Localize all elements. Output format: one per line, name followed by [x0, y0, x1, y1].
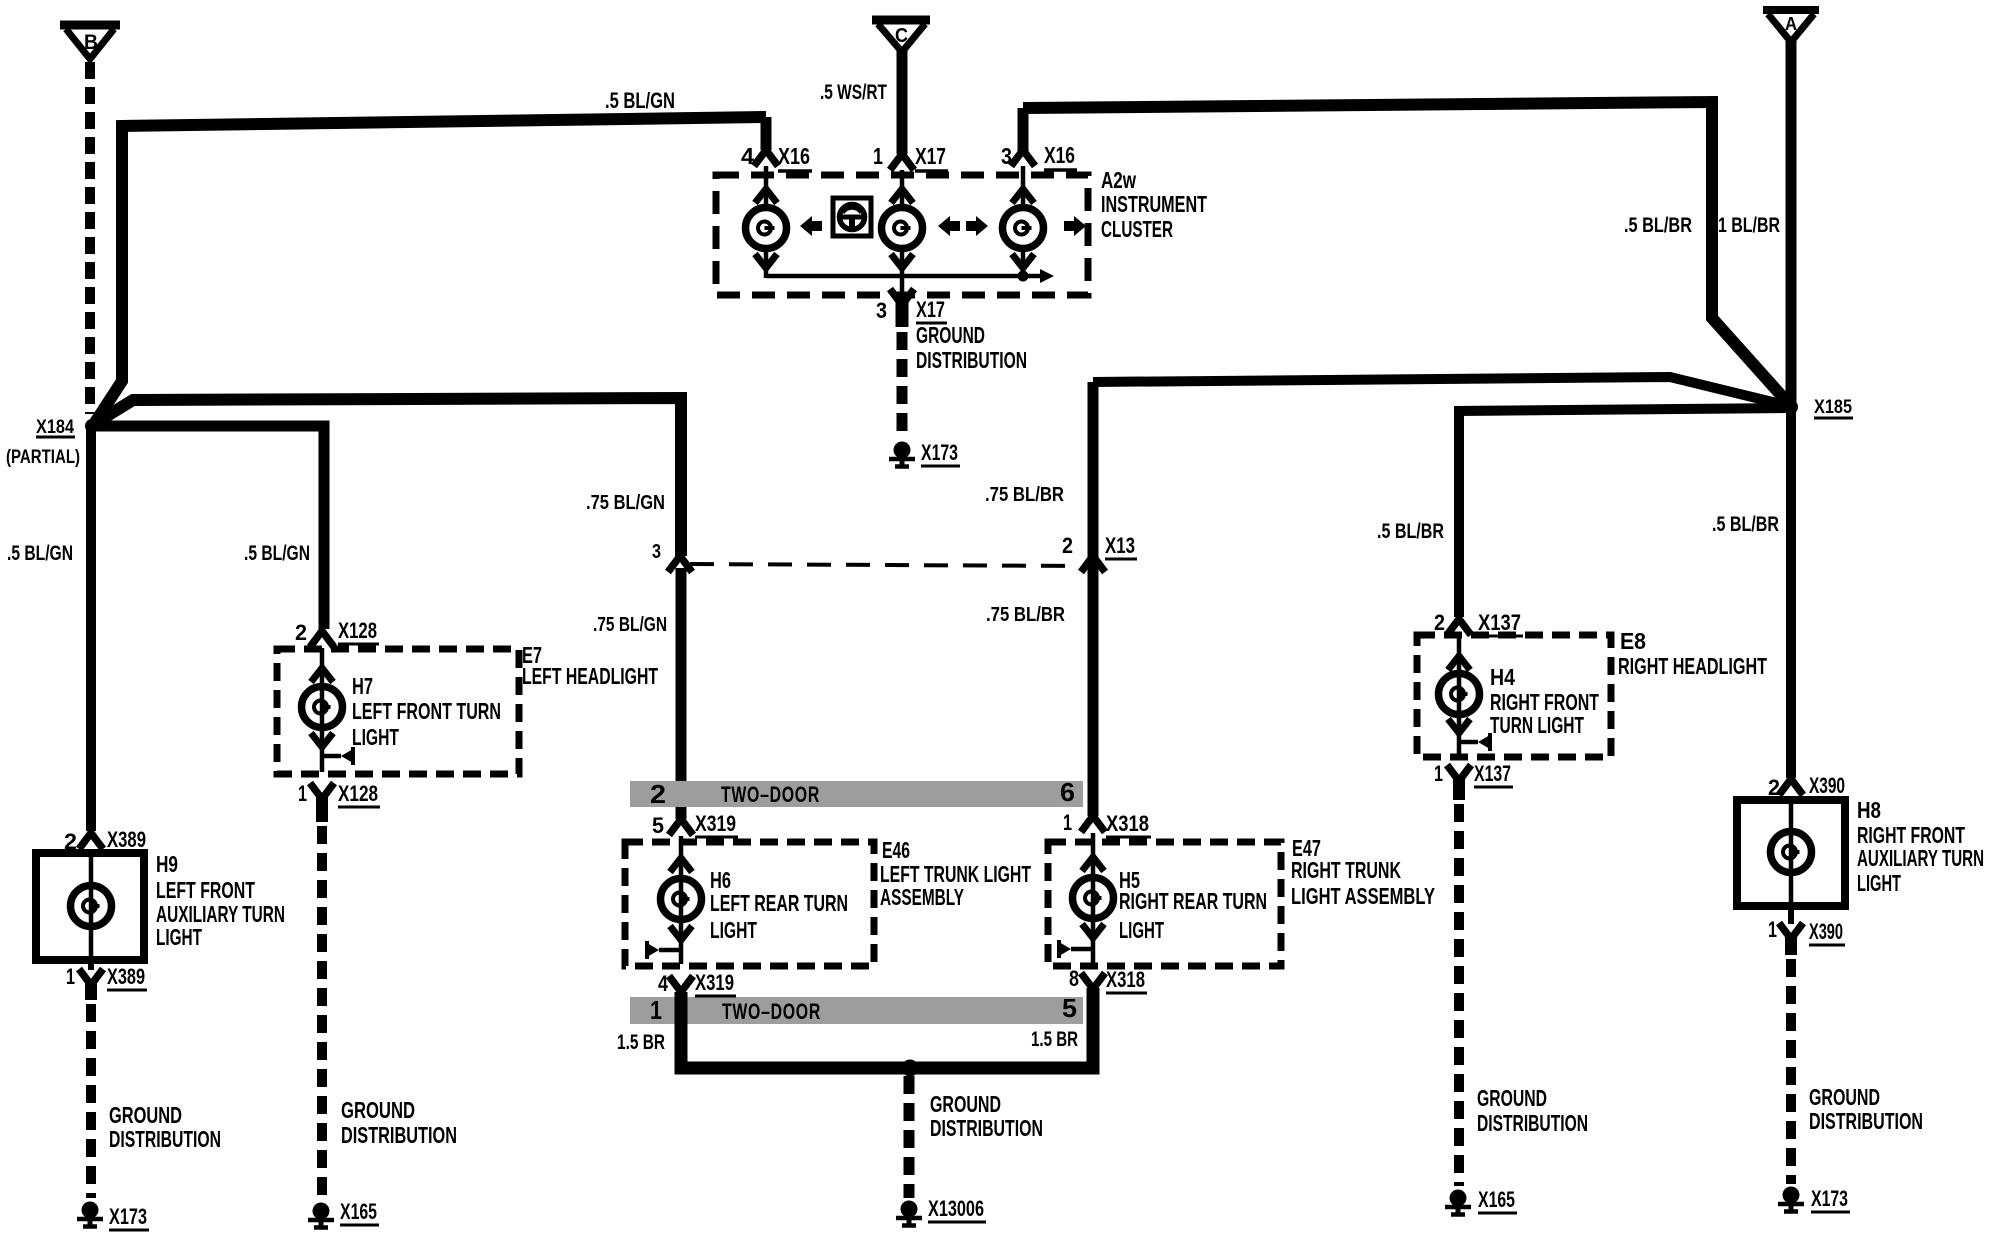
wire rear ground bus 1.5 BR: [681, 988, 1093, 1068]
svg-text:1 BL/BR: 1 BL/BR: [1718, 214, 1780, 237]
svg-text:LIGHT ASSEMBLY: LIGHT ASSEMBLY: [1291, 883, 1435, 909]
wire X184 down to X389 (.5 BL/GN): [86, 425, 96, 831]
svg-text:.75 BL/GN: .75 BL/GN: [593, 614, 667, 636]
wire B dashed vertical: [85, 62, 95, 414]
svg-text:H4: H4: [1490, 664, 1515, 690]
pin 1 X128: [298, 781, 380, 822]
ground X173 right: [1778, 1186, 1850, 1212]
svg-text:.5 BL/GN: .5 BL/GN: [605, 88, 675, 113]
svg-text:.5 BL/BR: .5 BL/BR: [1712, 513, 1779, 536]
svg-text:X319: X319: [695, 811, 736, 836]
indicator arrows center pair: [938, 216, 988, 236]
label GROUND DISTRIBUTION far left: [109, 1102, 221, 1152]
svg-text:A2w: A2w: [1101, 167, 1136, 193]
label H5 RIGHT REAR TURN LIGHT: [1119, 867, 1267, 943]
svg-text:X128: X128: [338, 781, 378, 806]
svg-text:X17: X17: [915, 143, 946, 169]
headlight E8 dashed box: [1417, 635, 1611, 757]
svg-text:C: C: [895, 25, 908, 47]
svg-text:LIGHT: LIGHT: [156, 924, 202, 950]
svg-text:1: 1: [873, 143, 883, 169]
svg-text:H8: H8: [1857, 797, 1881, 823]
label GROUND DISTRIBUTION mid left: [341, 1097, 457, 1148]
label E47 RIGHT TRUNK LIGHT ASSEMBLY: [1291, 835, 1435, 909]
wire dashed X137 to ground: [1454, 804, 1464, 1186]
bulb H4: [1439, 640, 1491, 755]
ground X165 right: [1445, 1187, 1517, 1215]
svg-text:DISTRIBUTION: DISTRIBUTION: [1477, 1110, 1588, 1136]
svg-text:TURN LIGHT: TURN LIGHT: [1490, 712, 1584, 738]
trunk light assembly E46 dashed box: [625, 842, 874, 966]
pin 1 X17: [873, 143, 948, 171]
bulb H9: [71, 849, 112, 960]
svg-text:E46: E46: [882, 837, 910, 863]
svg-text:8: 8: [1069, 966, 1079, 991]
svg-text:.5 WS/RT: .5 WS/RT: [820, 81, 887, 104]
bulb H7: [302, 652, 354, 772]
svg-text:1.5 BR: 1.5 BR: [1031, 1028, 1078, 1051]
pin 3 X17 bottom: [876, 289, 947, 327]
svg-text:3: 3: [876, 298, 887, 323]
svg-text:H9: H9: [156, 851, 178, 877]
svg-text:GROUND: GROUND: [916, 322, 985, 348]
svg-text:1: 1: [650, 995, 662, 1025]
svg-text:X185: X185: [1814, 397, 1852, 418]
svg-text:2: 2: [1062, 533, 1073, 558]
svg-text:1: 1: [1063, 810, 1072, 835]
pin 8 X318: [1069, 966, 1147, 993]
wire C vertical .5 WS/RT: [897, 50, 908, 154]
pin 4 X16: [741, 143, 812, 171]
svg-text:X128: X128: [338, 618, 377, 643]
pin 3 left of X13: [652, 541, 692, 572]
pin 5 X319: [652, 811, 738, 844]
svg-text:LIGHT: LIGHT: [1857, 870, 1901, 896]
indicator arrow left: [800, 216, 822, 236]
svg-text:TWO–DOOR: TWO–DOOR: [722, 999, 821, 1024]
svg-text:X184: X184: [36, 417, 74, 438]
lamp H8 box: [1737, 800, 1845, 906]
wire X184 to X128 branch: [92, 426, 324, 629]
bulb H6: [647, 844, 702, 964]
svg-text:X165: X165: [340, 1199, 377, 1224]
label H7 LEFT FRONT TURN LIGHT: [352, 673, 501, 750]
two-door band lower: [630, 993, 1083, 1025]
svg-text:.5 BL/BR: .5 BL/BR: [1377, 520, 1444, 543]
node X184: [6, 417, 99, 468]
wire dashed cluster to ground X173: [897, 332, 908, 438]
svg-text:X16: X16: [778, 143, 810, 169]
svg-text:X13006: X13006: [928, 1196, 984, 1221]
svg-text:RIGHT REAR TURN: RIGHT REAR TURN: [1119, 888, 1267, 914]
svg-text:DISTRIBUTION: DISTRIBUTION: [930, 1115, 1043, 1141]
svg-text:B: B: [84, 31, 98, 54]
pin 2 X389: [64, 827, 148, 854]
connector triangle A: [1763, 10, 1819, 42]
svg-text:X319: X319: [695, 970, 734, 995]
bulb H8: [1771, 796, 1812, 906]
svg-text:2: 2: [295, 620, 307, 645]
svg-text:X318: X318: [1106, 967, 1145, 992]
svg-text:5: 5: [652, 813, 664, 838]
label H4 RIGHT FRONT TURN LIGHT: [1490, 664, 1599, 738]
headlight E7 dashed box: [277, 649, 519, 774]
svg-text:(PARTIAL): (PARTIAL): [6, 447, 80, 468]
svg-text:X173: X173: [109, 1204, 147, 1229]
svg-text:3: 3: [652, 541, 661, 563]
label GROUND DISTRIBUTION center bottom: [930, 1091, 1043, 1141]
wire top-right .5 BL/BR run: [1023, 102, 1789, 404]
svg-text:X390: X390: [1809, 919, 1843, 944]
svg-text:LEFT FRONT: LEFT FRONT: [156, 877, 255, 903]
pin 1 X389: [66, 960, 147, 1000]
pin 2 X13: [1062, 533, 1137, 572]
svg-text:3: 3: [1001, 143, 1012, 169]
svg-text:A: A: [1785, 14, 1797, 34]
svg-text:X318: X318: [1106, 811, 1149, 836]
svg-text:1: 1: [66, 964, 75, 989]
svg-text:2: 2: [650, 779, 666, 809]
pin 1 X390: [1768, 906, 1845, 955]
svg-text:.75 BL/BR: .75 BL/BR: [986, 604, 1065, 626]
svg-text:X165: X165: [1478, 1187, 1515, 1212]
svg-text:INSTRUMENT: INSTRUMENT: [1101, 191, 1207, 217]
pin 2 X128: [295, 618, 379, 652]
svg-text:LIGHT: LIGHT: [710, 917, 757, 943]
label H8 RIGHT FRONT AUXILIARY TURN LIGHT: [1857, 797, 1984, 896]
label GROUND DISTRIBUTION center top: [916, 322, 1027, 373]
junction X13006 bus dot: [902, 1060, 919, 1077]
svg-text:E8: E8: [1620, 628, 1646, 654]
svg-text:4: 4: [741, 143, 754, 169]
svg-text:5: 5: [1062, 993, 1077, 1023]
label E8 RIGHT HEADLIGHT: [1618, 628, 1767, 679]
svg-text:GROUND: GROUND: [109, 1102, 182, 1128]
wire dashed X128 to ground: [317, 826, 327, 1198]
svg-text:1.5 BR: 1.5 BR: [617, 1031, 665, 1054]
svg-text:X389: X389: [107, 827, 146, 852]
svg-text:.75 BL/GN: .75 BL/GN: [586, 492, 665, 514]
wire top-left .5 BL/GN run: [94, 117, 766, 424]
svg-text:LIGHT: LIGHT: [1119, 917, 1164, 943]
svg-text:DISTRIBUTION: DISTRIBUTION: [916, 347, 1027, 373]
svg-text:4: 4: [658, 971, 669, 996]
indicator arrow right: [1064, 216, 1086, 236]
pin 2 X390: [1768, 773, 1847, 800]
svg-text:GROUND: GROUND: [1477, 1085, 1547, 1111]
trunk light assembly E47 dashed box: [1048, 842, 1281, 966]
svg-text:DISTRIBUTION: DISTRIBUTION: [341, 1122, 457, 1148]
instrument cluster A2w dashed box: [716, 175, 1088, 295]
svg-text:TWO–DOOR: TWO–DOOR: [721, 782, 820, 807]
svg-text:H7: H7: [352, 673, 373, 699]
svg-text:2: 2: [1434, 610, 1445, 635]
svg-text:LEFT REAR TURN: LEFT REAR TURN: [710, 890, 848, 916]
svg-text:6: 6: [1060, 777, 1075, 807]
pin 1 X318: [1063, 810, 1151, 844]
svg-text:.5 BL/BR: .5 BL/BR: [1624, 214, 1692, 237]
label A2w INSTRUMENT CLUSTER: [1101, 167, 1207, 242]
svg-text:LIGHT: LIGHT: [352, 724, 399, 750]
connector triangle C: [872, 20, 930, 52]
bulb cluster center lamp: [882, 170, 923, 294]
svg-text:X389: X389: [107, 964, 145, 989]
svg-text:.5 BL/GN: .5 BL/GN: [244, 542, 310, 565]
label E46 LEFT TRUNK LIGHT ASSEMBLY: [880, 837, 1031, 910]
bulb cluster right lamp: [1003, 166, 1044, 278]
label GROUND DISTRIBUTION mid right: [1477, 1085, 1588, 1136]
wire dashed to ground X13006: [904, 1076, 915, 1198]
pin 4 X319: [658, 970, 736, 996]
svg-text:GROUND: GROUND: [930, 1091, 1001, 1117]
wire left rear column to X319: [676, 568, 687, 819]
svg-text:ASSEMBLY: ASSEMBLY: [880, 884, 964, 910]
svg-text:.5 BL/GN: .5 BL/GN: [7, 542, 73, 565]
svg-text:RIGHT HEADLIGHT: RIGHT HEADLIGHT: [1618, 653, 1767, 679]
svg-text:1: 1: [1768, 917, 1777, 942]
node X185: [1784, 397, 1853, 418]
dashed link wire X13: [690, 564, 1080, 566]
cluster internal ground link wire: [766, 269, 1054, 283]
svg-text:X173: X173: [921, 440, 958, 465]
svg-text:DISTRIBUTION: DISTRIBUTION: [109, 1126, 221, 1152]
svg-text:GROUND: GROUND: [341, 1097, 415, 1123]
svg-text:LEFT FRONT TURN: LEFT FRONT TURN: [352, 698, 501, 724]
ground X13006: [896, 1196, 986, 1226]
svg-text:X17: X17: [916, 297, 945, 322]
svg-text:X16: X16: [1044, 142, 1075, 168]
ground X173 left: [77, 1202, 149, 1231]
svg-text:X173: X173: [1811, 1186, 1848, 1211]
wire X185 to X137 branch: [1459, 408, 1787, 617]
svg-text:AUXILIARY TURN: AUXILIARY TURN: [1857, 845, 1984, 871]
wire right rear column X13 to X318: [1088, 382, 1099, 816]
svg-text:1: 1: [298, 781, 307, 806]
svg-text:X137: X137: [1474, 761, 1511, 786]
svg-text:.75 BL/BR: .75 BL/BR: [985, 484, 1064, 506]
bulb cluster left lamp: [746, 166, 787, 278]
pin 1 X137: [1434, 761, 1513, 800]
steering wheel icon: [833, 198, 871, 236]
wire X185 down to X390 (.5 BL/BR): [1786, 407, 1796, 778]
wire A vertical 1 BL/BR: [1786, 40, 1797, 406]
svg-text:DISTRIBUTION: DISTRIBUTION: [1809, 1108, 1923, 1134]
svg-text:X137: X137: [1478, 610, 1521, 635]
ground X165 left: [308, 1199, 379, 1228]
svg-text:RIGHT TRUNK: RIGHT TRUNK: [1291, 857, 1401, 883]
wire dashed X390 to ground: [1786, 959, 1796, 1184]
svg-text:LEFT HEADLIGHT: LEFT HEADLIGHT: [522, 663, 658, 689]
label H6 LEFT REAR TURN LIGHT: [710, 867, 848, 943]
svg-text:CLUSTER: CLUSTER: [1101, 216, 1173, 242]
connector triangle B: [60, 25, 120, 59]
wire X184 to left rear (.75 BL/GN upper): [94, 398, 681, 556]
wire X185 upper branch to X13 column: [1093, 377, 1789, 406]
svg-text:X13: X13: [1105, 533, 1135, 558]
pin 2 X137: [1434, 610, 1523, 640]
bulb H5: [1059, 844, 1114, 964]
label E7 LEFT HEADLIGHT: [522, 642, 658, 689]
svg-text:1: 1: [1434, 761, 1443, 786]
svg-text:X390: X390: [1809, 773, 1845, 798]
label H9 LEFT FRONT AUXILIARY TURN LIGHT: [156, 851, 285, 950]
label GROUND DISTRIBUTION far right: [1809, 1084, 1923, 1134]
wire dashed X389 to ground: [86, 1004, 96, 1198]
lamp H9 box: [36, 853, 144, 960]
ground X173 center: [889, 440, 960, 467]
pin 3 X16: [1001, 142, 1077, 170]
two-door band upper: [630, 777, 1083, 809]
svg-text:GROUND: GROUND: [1809, 1084, 1880, 1110]
